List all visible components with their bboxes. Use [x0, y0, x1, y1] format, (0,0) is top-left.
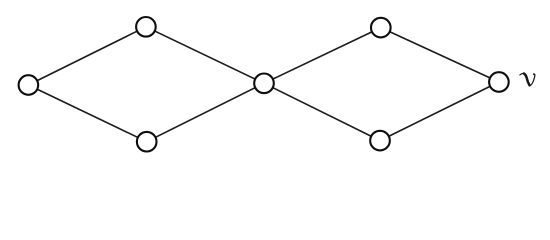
wire	[146, 27, 264, 84]
node bottom-right	[370, 131, 390, 151]
node top-left	[136, 17, 156, 37]
wire	[264, 83, 380, 140]
node left	[19, 75, 39, 95]
node bottom-left	[137, 132, 157, 152]
wire	[380, 82, 499, 141]
node center	[254, 74, 274, 94]
wire	[264, 28, 381, 84]
wire	[147, 83, 264, 141]
node top-right	[371, 18, 391, 38]
node v	[489, 72, 509, 92]
wire	[28, 85, 146, 142]
node label v	[520, 73, 535, 86]
wire	[381, 28, 499, 82]
wire	[28, 27, 145, 85]
